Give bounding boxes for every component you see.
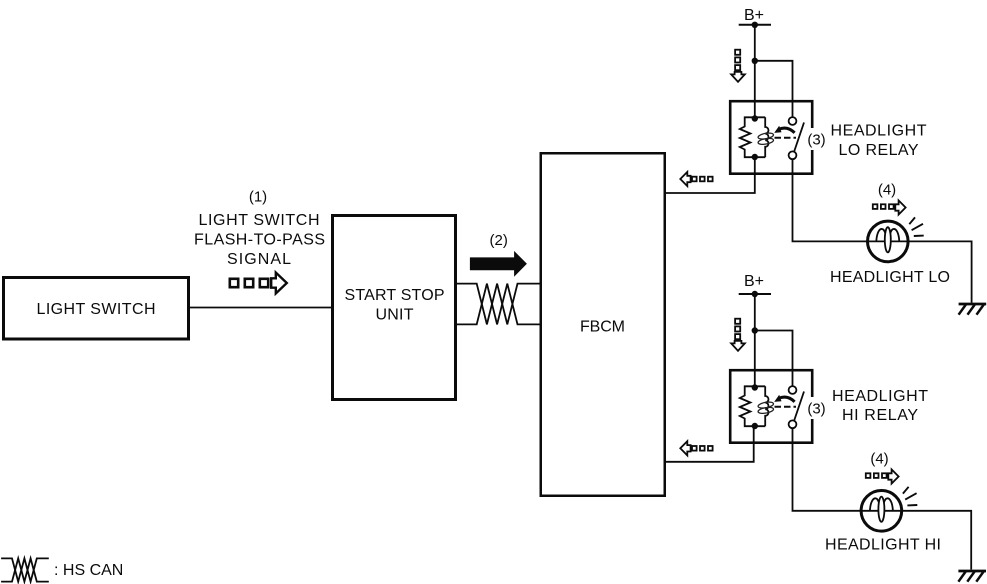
svg-text:B+: B+: [744, 7, 764, 24]
svg-text:(1): (1): [249, 189, 267, 206]
svg-text:LIGHT SWITCH: LIGHT SWITCH: [199, 212, 320, 229]
svg-text:HEADLIGHT LO: HEADLIGHT LO: [830, 269, 950, 286]
svg-text:(3): (3): [807, 400, 825, 417]
svg-text:(4): (4): [870, 451, 888, 468]
svg-text:START STOP: START STOP: [345, 287, 445, 304]
svg-text:: HS CAN: : HS CAN: [54, 562, 123, 579]
svg-text:FLASH-TO-PASS: FLASH-TO-PASS: [194, 231, 325, 248]
svg-text:HEADLIGHT: HEADLIGHT: [831, 123, 927, 140]
svg-text:HI RELAY: HI RELAY: [842, 407, 918, 424]
svg-text:FBCM: FBCM: [580, 318, 625, 335]
svg-text:SIGNAL: SIGNAL: [227, 251, 291, 268]
svg-text:HEADLIGHT: HEADLIGHT: [832, 388, 928, 405]
svg-text:UNIT: UNIT: [376, 307, 414, 324]
svg-text:(2): (2): [490, 232, 508, 249]
svg-text:B+: B+: [744, 273, 764, 290]
svg-text:(3): (3): [807, 131, 825, 148]
svg-text:(4): (4): [878, 181, 896, 198]
svg-text:LO RELAY: LO RELAY: [839, 142, 919, 159]
svg-text:HEADLIGHT HI: HEADLIGHT HI: [825, 536, 941, 553]
svg-text:LIGHT SWITCH: LIGHT SWITCH: [37, 301, 156, 318]
